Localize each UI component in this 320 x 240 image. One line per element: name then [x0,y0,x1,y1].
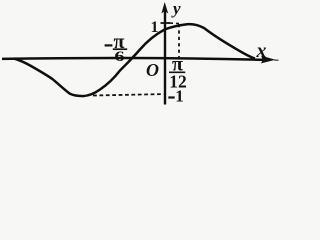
svg-text:1: 1 [175,87,184,106]
dashed connector from (0,1) to peak [168,22,179,25]
svg-text:x: x [256,40,267,62]
dashed vertical at x=pi/12 [178,24,180,57]
svg-text:1: 1 [151,19,159,36]
tick at y=1 [161,22,171,24]
y-axis arrowhead [161,2,168,14]
y-axis [164,10,166,105]
x-axis stub after arrow [274,59,279,61]
dashed horizontal at y=-1 [93,94,164,95]
svg-text:O: O [146,60,159,80]
label -1 [168,87,183,106]
label pi/12 [169,54,187,92]
label -pi/6 [105,31,128,64]
svg-text:y: y [171,0,181,18]
x-axis arrowhead [261,56,276,64]
x-axis [2,58,263,60]
svg-text:6: 6 [114,48,124,65]
curve: sine wave [14,24,255,96]
